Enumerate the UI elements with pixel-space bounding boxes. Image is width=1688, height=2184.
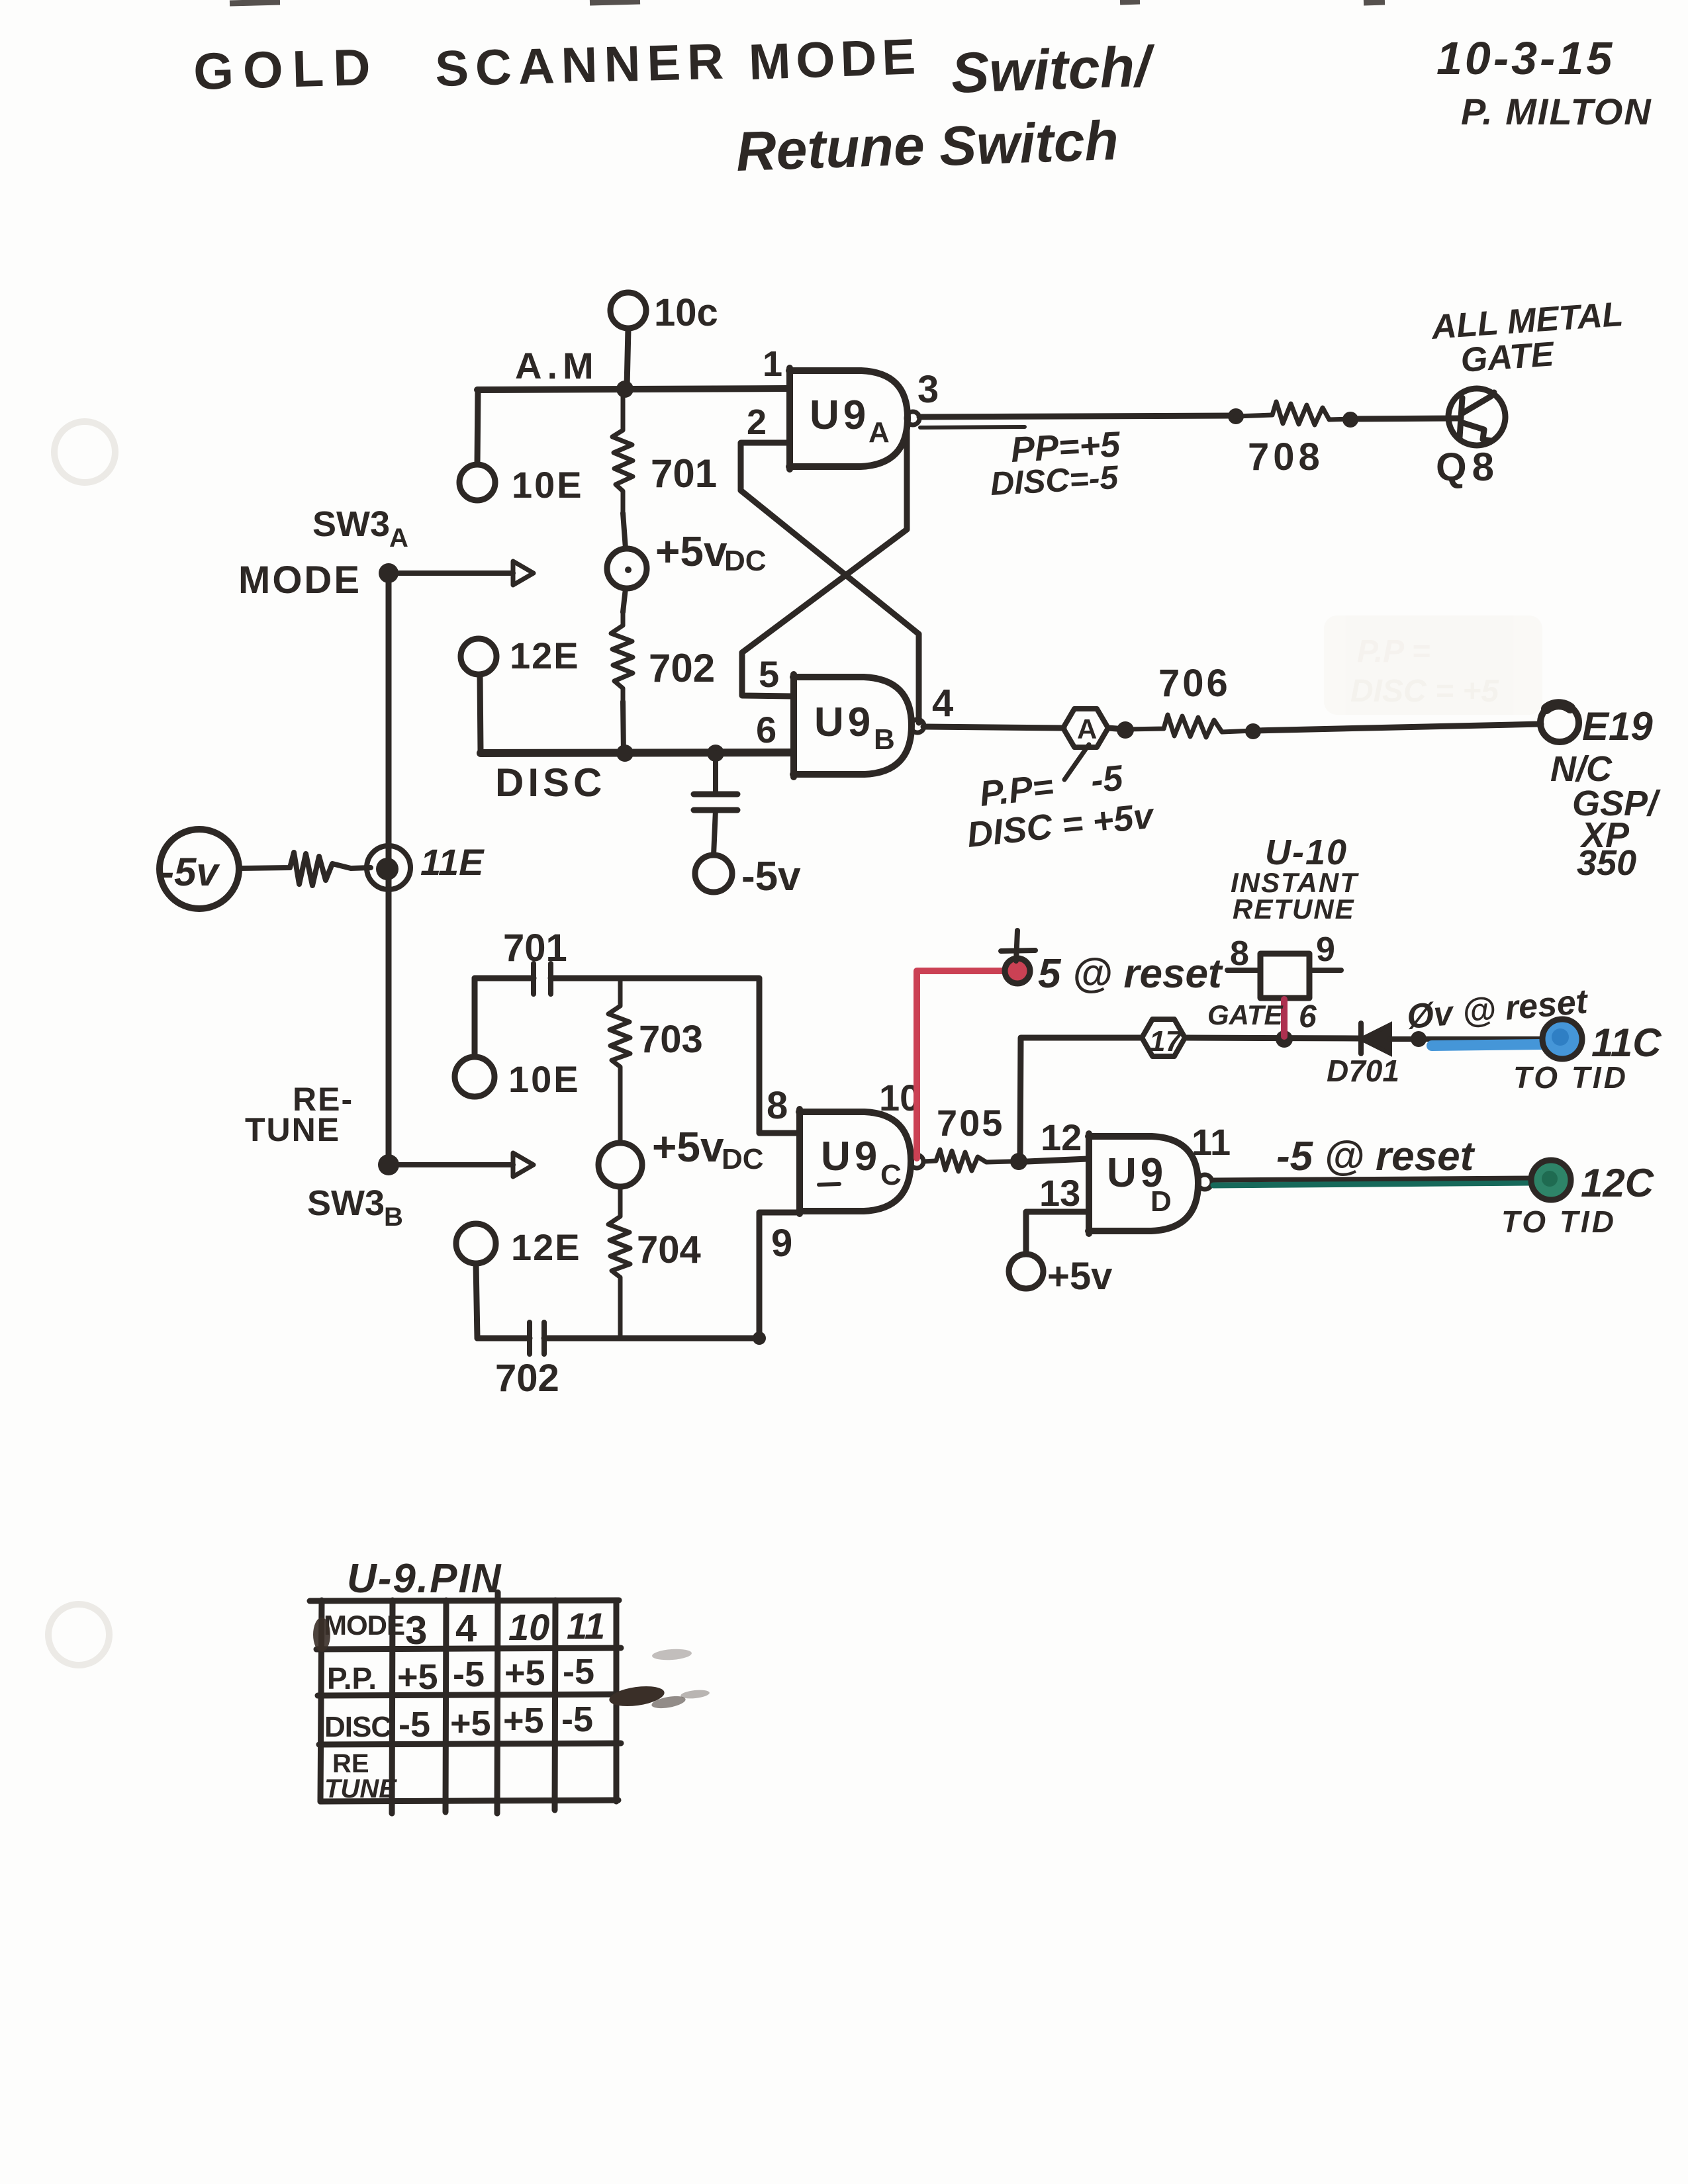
svg-text:-5: -5 bbox=[453, 1655, 485, 1694]
svg-text:SW3: SW3 bbox=[307, 1183, 385, 1223]
svg-text:1: 1 bbox=[763, 344, 782, 384]
capacitor 701 bbox=[534, 964, 551, 994]
svg-text:DC: DC bbox=[722, 1143, 764, 1175]
pin 6 red drop from U-10 bbox=[1281, 999, 1288, 1036]
wire diode to 11C bbox=[1390, 1036, 1542, 1042]
svg-text:-5v: -5v bbox=[161, 850, 220, 894]
svg-text:MODE: MODE bbox=[238, 559, 361, 602]
svg-text:N/C: N/C bbox=[1550, 749, 1613, 789]
nand gate U9D bbox=[1088, 1134, 1198, 1234]
pin 9 stub of U-10 bbox=[1309, 968, 1341, 973]
svg-text:-5: -5 bbox=[561, 1700, 593, 1739]
terminal 11C (blue) bbox=[1542, 1019, 1582, 1059]
svg-text:9: 9 bbox=[771, 1222, 792, 1265]
node junction 705/12 bbox=[1010, 1153, 1027, 1170]
svg-text:702: 702 bbox=[649, 646, 715, 690]
svg-text:13: 13 bbox=[1039, 1172, 1080, 1214]
resistor 704 bbox=[608, 1187, 630, 1338]
wire 702 down to DISC line bbox=[623, 702, 624, 753]
svg-text:10E: 10E bbox=[508, 1058, 581, 1100]
capacitor 702 (retune) bbox=[530, 1322, 544, 1354]
svg-text:10c: 10c bbox=[654, 291, 718, 334]
terminal +5v (U9D pin13) bbox=[1009, 1254, 1043, 1289]
svg-text:6: 6 bbox=[1299, 999, 1317, 1034]
nand gate U9C bbox=[799, 1109, 911, 1214]
svg-text:702: 702 bbox=[495, 1357, 559, 1400]
wire capacitor to -5v terminal bbox=[714, 810, 716, 855]
svg-text:12: 12 bbox=[1041, 1116, 1082, 1158]
svg-text:U9: U9 bbox=[814, 700, 874, 745]
terminal 12C (green) bbox=[1531, 1160, 1571, 1200]
wire 12E down to DISC line bbox=[480, 675, 481, 752]
svg-text:DISC: DISC bbox=[324, 1711, 391, 1743]
node dot after diode bbox=[1411, 1031, 1427, 1047]
svg-text:DC: DC bbox=[724, 545, 767, 577]
wire +5VDC to 702 bbox=[623, 588, 626, 612]
scan artifacts top edge bbox=[230, 1, 1385, 3]
wire switch bus vertical bbox=[386, 574, 392, 1165]
node junction before 708 bbox=[1228, 408, 1244, 424]
svg-text:U9: U9 bbox=[810, 392, 870, 438]
svg-text:6: 6 bbox=[756, 709, 776, 751]
node dot after hexagon bbox=[1117, 721, 1134, 739]
svg-text:DISC: DISC bbox=[495, 760, 606, 805]
svg-text:11: 11 bbox=[1192, 1121, 1231, 1163]
terminal 10E bbox=[459, 465, 495, 500]
svg-text:A: A bbox=[389, 523, 408, 553]
svg-text:17: 17 bbox=[1149, 1025, 1183, 1058]
wire A.M horizontal to pin 1 bbox=[477, 388, 786, 390]
svg-text:10-3-15: 10-3-15 bbox=[1436, 32, 1615, 84]
U-10 instant retune box bbox=[1260, 954, 1309, 998]
U9B output bubble bbox=[911, 719, 924, 733]
svg-text:+5v: +5v bbox=[1047, 1255, 1112, 1298]
svg-text:+5: +5 bbox=[397, 1657, 438, 1697]
node A.M junction bbox=[616, 381, 633, 398]
terminal E19 bbox=[1540, 704, 1579, 742]
plus cross at reset node bbox=[1001, 931, 1035, 961]
wire pin 8 stub bbox=[759, 1130, 798, 1136]
svg-text:C: C bbox=[880, 1159, 902, 1191]
resistor 706 (horizontal) bbox=[1125, 715, 1253, 737]
title: GOLD SCANNER MODE Switch/ bbox=[193, 28, 1156, 183]
U9D output bubble bbox=[1197, 1175, 1212, 1189]
wire pin 9 stub bbox=[759, 1210, 798, 1216]
eraser ghost smudge bbox=[1324, 615, 1542, 715]
svg-text:SW3: SW3 bbox=[312, 504, 390, 544]
svg-text:9: 9 bbox=[1316, 931, 1335, 969]
svg-text:TO TID: TO TID bbox=[1513, 1060, 1628, 1095]
svg-text:DISC = +5: DISC = +5 bbox=[1350, 674, 1499, 709]
terminal 12E (retune) bbox=[456, 1224, 496, 1263]
wire retune top rail bbox=[475, 978, 759, 1133]
svg-text:-5 @ reset: -5 @ reset bbox=[1276, 1134, 1476, 1179]
svg-text:B: B bbox=[874, 723, 895, 756]
wire 12E drop to bottom rail bbox=[476, 1263, 477, 1338]
svg-text:-5v: -5v bbox=[741, 854, 801, 899]
terminal -5v (below cap) bbox=[695, 855, 732, 892]
wire hex 17 to diode bbox=[1185, 1038, 1358, 1038]
terminal +5VDC (top) bbox=[607, 549, 647, 588]
svg-text:GATE: GATE bbox=[1207, 999, 1284, 1030]
svg-text:D: D bbox=[1150, 1185, 1172, 1218]
svg-text:-5: -5 bbox=[399, 1705, 430, 1745]
wire junction up to hex 17 bbox=[1020, 1038, 1142, 1161]
svg-text:-5: -5 bbox=[563, 1652, 594, 1692]
node junction 702/DISC bbox=[616, 745, 633, 762]
svg-text:SCANNER: SCANNER bbox=[434, 33, 731, 97]
svg-text:U-9.PIN: U-9.PIN bbox=[347, 1556, 502, 1602]
svg-text:RETUNE: RETUNE bbox=[1233, 893, 1355, 925]
ink smudge right of table bbox=[313, 1617, 710, 1710]
diode D701 bbox=[1361, 1024, 1390, 1054]
svg-text:703: 703 bbox=[639, 1018, 703, 1061]
transistor Q8 bbox=[1448, 388, 1505, 445]
svg-text:B: B bbox=[384, 1203, 403, 1232]
terminal +5VDC (retune) bbox=[598, 1143, 642, 1187]
svg-text:+5: +5 bbox=[503, 1701, 544, 1741]
svg-text:MODE: MODE bbox=[748, 28, 922, 91]
svg-text:350: 350 bbox=[1577, 843, 1636, 883]
svg-text:+5: +5 bbox=[450, 1704, 491, 1743]
svg-text:U9: U9 bbox=[821, 1134, 881, 1179]
wire SW3A arrow bbox=[397, 570, 513, 576]
node SW3B bbox=[378, 1154, 399, 1175]
wire green -5@reset to 12C bbox=[1213, 1183, 1531, 1185]
svg-text:TUNE: TUNE bbox=[324, 1774, 397, 1803]
wire 10E drop bbox=[472, 978, 478, 1056]
wire blue highlight to 11C bbox=[1432, 1044, 1542, 1046]
svg-text:TUNE: TUNE bbox=[245, 1111, 340, 1148]
svg-text:10: 10 bbox=[508, 1606, 549, 1648]
svg-text:P. MILTON: P. MILTON bbox=[1461, 91, 1652, 132]
U9A output bubble bbox=[906, 412, 919, 425]
wire DISC junction to capacitor bbox=[713, 753, 718, 793]
resistor 705 (horizontal) bbox=[923, 1150, 1010, 1171]
terminal 12E bbox=[461, 639, 496, 674]
wire pin 12 stub bbox=[1027, 1159, 1088, 1161]
capacitor (to -5v) bbox=[694, 792, 737, 797]
wire 706 to E19 bbox=[1253, 724, 1541, 731]
node junction cap/DISC bbox=[707, 745, 724, 762]
resistor 702 bbox=[611, 612, 633, 702]
wire SW3B arrow bbox=[397, 1162, 513, 1167]
svg-text:8: 8 bbox=[1230, 934, 1249, 973]
svg-text:P.P.: P.P. bbox=[327, 1661, 377, 1696]
svg-text:P.P =: P.P = bbox=[1357, 634, 1430, 669]
svg-text:Switch: Switch bbox=[938, 109, 1119, 177]
svg-text:DISC=-5: DISC=-5 bbox=[990, 459, 1120, 502]
node dot after 706 bbox=[1245, 723, 1261, 739]
svg-text:Retune: Retune bbox=[735, 114, 925, 183]
svg-text:4: 4 bbox=[932, 682, 953, 725]
svg-text:705: 705 bbox=[937, 1102, 1004, 1144]
node corner dot bbox=[753, 1332, 766, 1345]
terminal 10E (retune) bbox=[455, 1057, 494, 1097]
svg-text:E19: E19 bbox=[1582, 704, 1653, 749]
svg-text:3: 3 bbox=[917, 368, 939, 411]
svg-text:TO TID: TO TID bbox=[1501, 1205, 1617, 1239]
nand gate U9A bbox=[789, 368, 908, 469]
wire 708 to Q8 bbox=[1350, 418, 1460, 419]
svg-text:11C: 11C bbox=[1591, 1021, 1662, 1065]
node A hexagon bbox=[1063, 709, 1108, 747]
terminal 10c bbox=[610, 293, 646, 328]
svg-text:3: 3 bbox=[405, 1608, 427, 1653]
wire 10c to A.M line bbox=[627, 329, 628, 387]
svg-text:5 @ reset: 5 @ reset bbox=[1038, 951, 1223, 997]
node junction U-10 pin 6 bbox=[1276, 1030, 1293, 1048]
wire pin4 to hexagon A bbox=[923, 727, 1064, 728]
wire retune bottom rail bbox=[477, 1212, 759, 1338]
resistor (from -5v, unlabeled) bbox=[239, 852, 371, 886]
svg-text:D701: D701 bbox=[1327, 1054, 1399, 1088]
svg-text:+5v: +5v bbox=[652, 1123, 724, 1171]
svg-text:MODE: MODE bbox=[324, 1610, 404, 1641]
svg-text:-5: -5 bbox=[1089, 758, 1125, 801]
svg-text:11E: 11E bbox=[420, 841, 485, 883]
svg-text:U-10: U-10 bbox=[1265, 833, 1348, 872]
wire cross-couple pin2 to U9B output (diagonal) bbox=[741, 490, 919, 723]
resistor 703 bbox=[608, 978, 630, 1142]
punch hole ghosts bbox=[54, 422, 115, 482]
svg-text:2: 2 bbox=[747, 402, 767, 442]
svg-text:GOLD: GOLD bbox=[193, 38, 381, 101]
resistor 701 bbox=[612, 389, 633, 513]
pin 8 stub of U-10 bbox=[1227, 968, 1260, 973]
svg-text:10E: 10E bbox=[512, 464, 584, 506]
wire pin3 to junction bbox=[919, 416, 1236, 417]
node junction after 708 bbox=[1342, 412, 1358, 428]
svg-text:A: A bbox=[868, 416, 890, 449]
svg-text:A: A bbox=[1077, 713, 1097, 745]
svg-text:Q8: Q8 bbox=[1436, 445, 1499, 489]
power -5v source bbox=[160, 829, 239, 909]
wire DISC horizontal bbox=[481, 752, 793, 753]
node 17 hexagon bbox=[1142, 1019, 1185, 1056]
svg-text:704: 704 bbox=[637, 1228, 701, 1271]
wire pin 13 stub bbox=[1026, 1212, 1088, 1254]
svg-text:12E: 12E bbox=[510, 635, 580, 676]
wire red +5@reset riser bbox=[917, 971, 1009, 1158]
resistor 708 (horizontal) bbox=[1236, 402, 1350, 425]
wire cross-couple U9A output down to pin5 (diagonal) bbox=[742, 428, 907, 696]
table grid bbox=[310, 1592, 621, 1813]
nand gate U9B bbox=[793, 674, 912, 777]
svg-text:+5: +5 bbox=[504, 1653, 545, 1693]
svg-text:12C: 12C bbox=[1581, 1161, 1655, 1205]
svg-text:11: 11 bbox=[567, 1605, 605, 1647]
wire pin2 stub bbox=[741, 443, 789, 490]
svg-text:GATE: GATE bbox=[1460, 335, 1556, 380]
U9C output bubble bbox=[910, 1155, 923, 1168]
svg-text:5: 5 bbox=[759, 653, 779, 695]
node SW3A bbox=[379, 563, 399, 583]
svg-text:Switch/: Switch/ bbox=[950, 34, 1156, 105]
svg-text:+5v: +5v bbox=[655, 527, 727, 575]
svg-text:706: 706 bbox=[1158, 662, 1231, 705]
svg-text:A.M: A.M bbox=[515, 345, 599, 387]
wire double-stroke under pin3 bbox=[920, 427, 1025, 428]
wire hexagon to 706 bbox=[1108, 728, 1125, 729]
wire corner down to 10E bbox=[477, 390, 478, 464]
node +5@reset (red) bbox=[1005, 958, 1030, 983]
svg-text:701: 701 bbox=[651, 451, 717, 496]
wire 701 to +5VDC bbox=[623, 513, 626, 549]
svg-text:12E: 12E bbox=[511, 1226, 581, 1268]
node 11E bbox=[367, 846, 410, 889]
svg-text:4: 4 bbox=[455, 1607, 477, 1650]
svg-text:708: 708 bbox=[1248, 435, 1324, 478]
svg-text:8: 8 bbox=[767, 1084, 788, 1127]
